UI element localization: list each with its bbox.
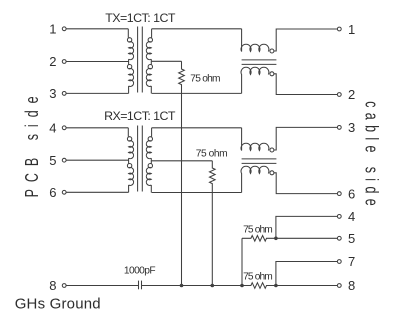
- svg-text:8: 8: [348, 278, 355, 293]
- svg-text:1: 1: [49, 22, 56, 37]
- svg-text:3: 3: [348, 120, 355, 135]
- svg-text:6: 6: [49, 185, 56, 200]
- svg-text:75 ohm: 75 ohm: [243, 272, 273, 283]
- svg-text:cable side: cable side: [361, 101, 381, 206]
- svg-text:6: 6: [348, 186, 355, 201]
- svg-text:3: 3: [49, 86, 56, 101]
- svg-text:GHs Ground: GHs Ground: [15, 296, 101, 313]
- svg-text:1: 1: [348, 22, 355, 37]
- svg-text:5: 5: [49, 153, 56, 168]
- svg-text:TX=1CT: 1CT: TX=1CT: 1CT: [105, 11, 176, 25]
- svg-text:5: 5: [348, 231, 355, 246]
- svg-text:4: 4: [49, 121, 56, 136]
- svg-text:8: 8: [49, 278, 56, 293]
- svg-text:2: 2: [49, 54, 56, 69]
- svg-text:4: 4: [348, 209, 355, 224]
- svg-text:RX=1CT: 1CT: RX=1CT: 1CT: [104, 109, 176, 123]
- svg-text:7: 7: [348, 254, 355, 269]
- svg-text:PCB side: PCB side: [23, 96, 43, 197]
- svg-text:75 ohm: 75 ohm: [190, 73, 220, 84]
- svg-text:2: 2: [348, 87, 355, 102]
- svg-text:75 ohm: 75 ohm: [196, 148, 228, 159]
- svg-text:1000pF: 1000pF: [124, 265, 156, 276]
- svg-text:75 ohm: 75 ohm: [243, 225, 273, 236]
